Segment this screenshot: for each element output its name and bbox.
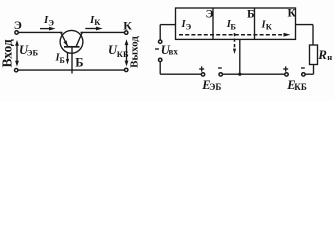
- svg-text:Э: Э: [186, 22, 192, 32]
- svg-text:К: К: [288, 8, 297, 20]
- svg-text:ЭБ: ЭБ: [209, 82, 221, 92]
- svg-text:К: К: [123, 19, 132, 33]
- svg-text:Б: Б: [230, 22, 236, 32]
- svg-text:вх: вх: [169, 47, 179, 57]
- svg-text:н: н: [327, 52, 332, 62]
- svg-text:К: К: [94, 17, 101, 27]
- svg-text:Э: Э: [14, 18, 22, 32]
- svg-text:Э: Э: [206, 9, 214, 21]
- svg-text:Э: Э: [48, 18, 54, 28]
- svg-text:Выход: Выход: [129, 36, 141, 68]
- svg-text:Б: Б: [247, 9, 255, 21]
- svg-text:КБ: КБ: [117, 49, 129, 59]
- svg-text:R: R: [317, 47, 327, 62]
- svg-text:Б: Б: [60, 56, 65, 65]
- svg-text:Б: Б: [75, 56, 83, 70]
- svg-text:ЭБ: ЭБ: [27, 48, 39, 58]
- svg-text:Вход: Вход: [0, 39, 15, 67]
- svg-text:КБ: КБ: [294, 82, 307, 92]
- svg-text:К: К: [266, 22, 273, 32]
